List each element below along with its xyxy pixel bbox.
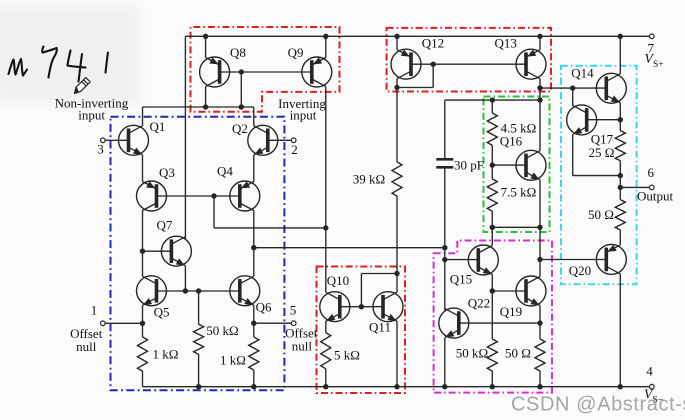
svg-text:30 pF: 30 pF [454, 158, 484, 173]
transistor Q17 label [591, 132, 614, 147]
wire Q14 collector to rail [619, 36, 621, 74]
transistor Q7 [161, 236, 191, 266]
svg-text:Q14: Q14 [571, 66, 594, 81]
svg-text:Q3: Q3 [159, 165, 175, 180]
resistor R3 50 kOhm [194, 291, 204, 387]
pin 7 terminal [650, 34, 655, 39]
svg-text:Q16: Q16 [500, 134, 523, 149]
wire pin 2 to Q2 base [268, 139, 292, 141]
wire Q8 emitter to rail [205, 36, 207, 57]
wire node Q4 Q6 collectors to cap C1, Q15 base, Q22 collector [251, 168, 478, 311]
transistor Q19 [516, 276, 546, 306]
transistor Q16 label [500, 134, 523, 149]
pin 7 label [648, 41, 655, 56]
green group box (VBE multiplier Q16) [484, 97, 550, 233]
wire Q5 emitter to R1 and offset null pin 1 [105, 305, 148, 386]
transistor Q3 label [159, 165, 175, 180]
wire node Q13 collector to Q14 base, Q17 collector, Q16 collector and cap [445, 79, 607, 151]
wire Q10 base to Q11 base and Q11 collector tie [339, 271, 400, 310]
watermark [511, 394, 685, 416]
pin 1 label [91, 303, 98, 318]
transistor Q8 [200, 57, 230, 87]
svg-text:Q11: Q11 [369, 320, 391, 335]
transistor Q9 label [288, 45, 304, 60]
transistor Q13 label [495, 36, 517, 51]
transistor Q7 label [157, 218, 173, 233]
handwritten annotation "u741" [9, 47, 109, 82]
wire Q3 collector to Q5 collector and Q7 base [140, 211, 172, 277]
svg-text:50 Ω: 50 Ω [505, 346, 531, 361]
svg-text:Q8: Q8 [230, 45, 246, 60]
offset null label right [285, 326, 318, 354]
svg-text:7.5 kΩ: 7.5 kΩ [501, 185, 537, 200]
wire Q5 Q6 bases to Q7 emitter and R3 50k [157, 266, 240, 294]
transistor Q2 label [232, 121, 248, 136]
svg-text:50 Ω: 50 Ω [588, 207, 614, 222]
wire Q12 collector-base tie and Q12 Q13 base wire [397, 61, 527, 87]
light gray patch behind handwritten title [0, 6, 140, 104]
transistor Q20 label [569, 263, 591, 278]
transistor Q5 label [154, 305, 170, 320]
svg-text:null: null [292, 339, 313, 354]
wire Q2 emitter to Q4 emitter [253, 155, 255, 182]
resistor R11 50 Ohm output to Q20 emitter [615, 187, 625, 245]
transistor Q5 [137, 276, 167, 306]
transistor Q8 label [230, 45, 246, 60]
pin 5 label [290, 303, 297, 318]
non-inverting input label [55, 96, 129, 123]
pencil icon [75, 78, 91, 94]
wire Q11 emitter to V- rail [396, 321, 398, 387]
pin 1 terminal [101, 321, 106, 326]
svg-text:1: 1 [91, 303, 98, 318]
resistor R11 value label [588, 207, 614, 222]
resistor R10 value label [505, 346, 531, 361]
wire node Q16 emitter to Q15 collector, Q19 collector and Q20 base [490, 180, 607, 277]
wire node Q9 collector to Q3 Q4 bases and Q10 collector [157, 87, 329, 293]
pin 6 label [648, 165, 655, 180]
blue group box (input stage) [111, 117, 285, 391]
transistor Q14 [596, 73, 626, 103]
red group box (Q8 Q9 current mirror) [191, 27, 340, 112]
svg-text:Q4: Q4 [217, 164, 233, 179]
wire Q8 base to Q9 base [220, 69, 312, 74]
cyan group box (output stage Q14 Q17 Q20) [561, 66, 637, 285]
resistor R5 39 kOhm from Q12 collector to Q11 collector [392, 85, 402, 274]
pin 2 label [291, 142, 298, 157]
transistor Q22 [439, 308, 469, 338]
resistor R9 value label [456, 346, 488, 361]
svg-text:Q2: Q2 [232, 121, 248, 136]
transistor Q16 [516, 150, 546, 180]
wire Q15 emitter to Q19 base and R9 50k [487, 275, 527, 387]
svg-text:Q22: Q22 [468, 296, 490, 311]
transistor Q15 label [450, 272, 472, 287]
transistor Q17 [567, 105, 597, 135]
svg-text:S+: S+ [653, 60, 664, 70]
magenta group box (Q15 Q19 Q22 protection) [434, 241, 552, 393]
transistor Q20 [596, 244, 626, 274]
svg-text:Q12: Q12 [422, 36, 444, 51]
resistor R2 value label [220, 353, 246, 368]
wire Q13 emitter to rail [539, 36, 541, 49]
svg-text:1 kΩ: 1 kΩ [153, 347, 179, 362]
svg-text:1 kΩ: 1 kΩ [220, 353, 246, 368]
transistor Q12 label [422, 36, 444, 51]
wire V- supply rail [143, 384, 652, 389]
svg-text:Q10: Q10 [327, 273, 349, 288]
resistor R7 value label [501, 121, 537, 136]
wire Q12 emitter to rail [396, 36, 398, 49]
svg-text:Q5: Q5 [154, 305, 170, 320]
svg-text:Q1: Q1 [150, 119, 166, 134]
svg-text:Q15: Q15 [450, 272, 472, 287]
svg-text:25 Ω: 25 Ω [589, 145, 615, 160]
svg-text:5: 5 [290, 303, 297, 318]
transistor Q6 [230, 276, 260, 306]
wire Q11 collector [396, 274, 398, 293]
transistor Q1 [119, 125, 149, 155]
resistors R7 4.5k and R8 7.5k with Q16 base tap [487, 100, 527, 227]
transistor Q4 [230, 181, 260, 211]
resistor R5 value label [353, 172, 385, 187]
pin 2 terminal [291, 138, 296, 143]
svg-text:Q6: Q6 [256, 300, 272, 315]
V_S+ label [645, 51, 664, 70]
red group box (Q10 Q11 bias) [317, 267, 406, 394]
wire Q20 collector to V- rail [619, 274, 621, 387]
wire node Q1 Q2 collectors to Q8 collector (diode tie) [143, 72, 254, 126]
capacitor C1 value label [454, 158, 484, 173]
svg-text:6: 6 [648, 165, 655, 180]
transistor Q11 label [369, 320, 391, 335]
output label [637, 189, 674, 204]
pin 3 label [97, 142, 104, 157]
resistor R4 value label [334, 348, 360, 363]
svg-text:5 kΩ: 5 kΩ [334, 348, 360, 363]
svg-text:Q13: Q13 [495, 36, 517, 51]
resistor R4 5 kOhm with Q10 emitter wire [321, 321, 331, 387]
svg-text:50 kΩ: 50 kΩ [206, 323, 238, 338]
V_S- label [644, 387, 663, 406]
transistor Q15 [468, 245, 498, 275]
svg-text:Q19: Q19 [500, 304, 522, 319]
inverting input label [278, 96, 326, 123]
svg-text:3: 3 [97, 142, 104, 157]
wire pin 3 to Q1 base [105, 139, 129, 141]
pin 5 terminal [291, 321, 296, 326]
svg-text:4: 4 [646, 364, 653, 379]
transistor Q2 [248, 125, 278, 155]
wire Q6 emitter to R2 and offset null pin 5 [249, 305, 292, 386]
svg-text:Output: Output [637, 189, 674, 204]
transistor Q3 [137, 181, 167, 211]
pin 6 terminal [650, 185, 655, 190]
transistor Q10 [320, 292, 350, 322]
resistor R6 value label [589, 145, 615, 160]
svg-text:null: null [76, 339, 97, 354]
pin 4 label [646, 364, 653, 379]
transistor Q12 [391, 49, 421, 79]
resistor R8 value label [501, 185, 537, 200]
offset null label left [70, 326, 103, 354]
red group box (Q12 Q13 current mirror) [387, 28, 551, 92]
transistor Q22 label [468, 296, 490, 311]
resistor R1 1 kOhm [0, 0, 1, 1]
wire V+ supply rail [185, 34, 651, 39]
transistor Q19 label [500, 304, 522, 319]
pin 3 terminal [101, 138, 106, 143]
transistor Q1 label [150, 119, 166, 134]
resistor R1 value label [153, 347, 179, 362]
svg-text:50 kΩ: 50 kΩ [456, 346, 488, 361]
svg-text:Q7: Q7 [157, 218, 173, 233]
pin 4 terminal [650, 384, 655, 389]
capacitor C1 30 pF [436, 100, 453, 167]
svg-text:Q9: Q9 [288, 45, 304, 60]
wire Q1 emitter to Q3 emitter [142, 155, 144, 182]
transistor Q14 label [571, 66, 594, 81]
svg-text:39 kΩ: 39 kΩ [353, 172, 385, 187]
transistor Q4 label [217, 164, 233, 179]
wire Q7 collector to V+ rail [184, 36, 186, 240]
svg-text:2: 2 [291, 142, 298, 157]
wire Q22 emitter to V- rail [444, 338, 446, 387]
wire Q9 emitter to rail [325, 36, 327, 57]
svg-text:Q17: Q17 [591, 132, 614, 147]
transistor Q11 [373, 292, 403, 322]
resistor R3 value label [206, 323, 238, 338]
transistor Q6 label [256, 300, 272, 315]
wire Q14 emitter through R6 25 Ohm to output, Q17 base and emitter taps [573, 103, 650, 190]
svg-text:input: input [290, 108, 317, 123]
svg-text:CSDN @Abstract-s: CSDN @Abstract-s [511, 394, 685, 416]
wire Q19 emitter to Q22 base and R10 50 Ohm [458, 306, 545, 387]
transistor Q13 [516, 49, 546, 79]
svg-text:input: input [78, 108, 105, 123]
svg-text:Q20: Q20 [569, 263, 591, 278]
transistor Q9 [302, 57, 332, 87]
transistor Q10 label [327, 273, 349, 288]
